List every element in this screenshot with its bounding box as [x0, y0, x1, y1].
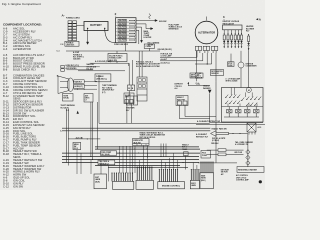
- label A-1 ign: [195, 72, 203, 79]
- wire left vertical pair: [66, 109, 69, 166]
- harness connector box: [113, 181, 134, 189]
- wire fuse block to bus: [124, 43, 126, 51]
- harness enclosure outline: [99, 75, 210, 123]
- wires washer motor down: [179, 106, 216, 119]
- wires bottom right: [198, 131, 244, 163]
- antenna relay thin box: [237, 167, 264, 173]
- wire bus drop to air flow meter: [195, 51, 197, 81]
- component location list: [3, 27, 47, 189]
- heater blower relay column: [247, 34, 249, 51]
- regulator output column 2: [227, 30, 229, 48]
- label A/C control unit: [236, 174, 250, 181]
- wire fuse row 3 down: [136, 27, 143, 42]
- zone marker A (right): [256, 18, 258, 20]
- wires horn leads: [74, 81, 97, 89]
- wire L-11 branch: [188, 82, 210, 86]
- regulator output column 4: [234, 30, 236, 48]
- wire arrow tail to relay: [229, 133, 248, 150]
- washer switch box: [73, 142, 81, 149]
- wire battery positive to fuse block: [105, 29, 116, 42]
- heater blower relay label: [246, 25, 255, 32]
- junction dots horn leads: [77, 89, 78, 90]
- label fuse group: [73, 51, 84, 60]
- wire row lower: [78, 70, 125, 72]
- headlight relay timer label: [182, 144, 189, 151]
- page marker dot: [259, 180, 262, 183]
- interrupt marker 1: [149, 14, 151, 20]
- wire ground drop: [209, 93, 211, 122]
- connector comb B: [137, 166, 153, 180]
- wire battery to fusible links: [77, 25, 85, 27]
- comb risers: [139, 153, 197, 169]
- headlight retract relay unit box: [222, 88, 264, 123]
- starter relay body: [127, 91, 138, 105]
- connector comb C: [159, 169, 178, 182]
- stop fuse box: [228, 62, 235, 67]
- connector comb A: [111, 172, 133, 181]
- wire bus to inline fuse: [116, 51, 118, 54]
- control unit box A: [94, 174, 107, 189]
- wire label boxes: [218, 149, 226, 152]
- tank fuse label box: [98, 160, 115, 165]
- bottom fuse block: [133, 139, 150, 146]
- scan noise overlay: [0, 0, 1, 1]
- fuel pump relay label box: [101, 151, 117, 156]
- wires relay unit bottom: [196, 123, 265, 125]
- labels alternator feed: [161, 53, 173, 64]
- alternator terminal connectors: [195, 46, 217, 53]
- junction dots bottom buses: [90, 149, 183, 164]
- note: charging system: [136, 60, 161, 68]
- tail light relay box: [247, 123, 256, 135]
- regulator output column 5: [237, 30, 239, 48]
- fuse box on bus: [144, 44, 154, 48]
- horn relay row 1: [61, 65, 65, 68]
- regulator output column 6: [240, 30, 242, 48]
- wire A-20 row: [68, 138, 100, 140]
- relay unit lower components: [224, 107, 259, 118]
- wire fuse row 4 down: [136, 30, 139, 44]
- label box horn sw: [63, 94, 74, 102]
- wire inline fuse drop: [116, 62, 118, 64]
- label detonation sw: [221, 168, 230, 175]
- ignition relay: [137, 51, 147, 101]
- horn: [58, 76, 74, 94]
- relay contacts cluster 1: [225, 95, 244, 104]
- relay unit inner divider: [222, 106, 264, 108]
- headlight washer motor: [176, 96, 188, 106]
- fuse link block: [116, 18, 136, 43]
- battery terminal dots: [87, 28, 88, 29]
- label box aux driving: [84, 94, 93, 103]
- wire fuse row 2: [136, 24, 153, 30]
- wire fuse row 1 to ign sw: [136, 20, 157, 22]
- ficd label box: [201, 151, 211, 159]
- wires bottom fuse block drops: [143, 146, 147, 158]
- battery: [84, 22, 108, 31]
- wire mid-left verticals: [91, 102, 97, 160]
- engine control unit box: [158, 182, 185, 189]
- bottom wire buses: [62, 147, 200, 168]
- fusible link (BLK-L) label box: [95, 74, 111, 82]
- regulator output column 3: [230, 30, 232, 48]
- harness connector box L: [136, 180, 154, 189]
- starter relay connector: [128, 60, 135, 91]
- wire headlt rly drop: [185, 156, 187, 170]
- connector diamond chain: [246, 149, 250, 167]
- wire mid bus 2: [62, 130, 210, 132]
- label fuel pump turbo ecsc interface: [169, 24, 183, 30]
- relay contacts cluster 2: [246, 97, 261, 106]
- wires into bottom section: [77, 144, 166, 182]
- label main horn cigar dome: [144, 30, 152, 39]
- detonation sensor label box: [211, 70, 224, 76]
- horn relay row 2: [61, 69, 65, 72]
- connector box E: [200, 173, 214, 189]
- ignition condenser: [238, 62, 244, 68]
- defrost control relay label: [175, 84, 184, 90]
- arrow connector up: [77, 111, 79, 114]
- fusible link bottom box: [65, 41, 79, 46]
- label theft warning relay: [102, 84, 117, 94]
- wires right column drops: [231, 51, 249, 88]
- wire right box side drop: [215, 81, 217, 131]
- wire main bus: [66, 50, 160, 52]
- pointer arrow: [211, 131, 229, 137]
- alternator: [195, 21, 218, 44]
- motor symbol in relay unit: [246, 87, 251, 92]
- labels right of horn rows: [87, 63, 97, 70]
- in-line fuse box: [108, 54, 127, 62]
- horn lead label boxes: [74, 80, 84, 84]
- wire mid bus 1: [62, 127, 210, 129]
- label rear wiper: [148, 41, 160, 46]
- retract motor connector: [124, 93, 134, 104]
- wires retract motor down: [127, 104, 132, 124]
- wire battery ground lead: [87, 29, 89, 44]
- relay unit inner feed wires: [228, 88, 257, 107]
- connector comb E: [200, 161, 213, 172]
- wires alternator feed: [160, 53, 216, 81]
- connector comb D: [191, 169, 200, 180]
- regulator output column 1: [223, 30, 225, 48]
- air flow meter label box: [190, 73, 203, 78]
- wire row A-2: [90, 63, 129, 66]
- fusible link ladder: [68, 21, 77, 41]
- connector box D: [190, 180, 199, 188]
- label headlt sw group: [140, 131, 166, 138]
